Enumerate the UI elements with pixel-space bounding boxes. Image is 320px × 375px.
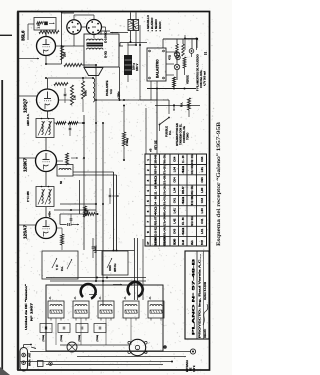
svg-text:OSC: OSC — [108, 265, 112, 271]
svg-text:·C·: ·C· — [125, 296, 127, 299]
svg-text:● NEGRO: ● NEGRO — [154, 19, 158, 31]
svg-text:C41: C41 — [200, 218, 204, 223]
svg-text:LLEMA: LLEMA — [154, 237, 158, 245]
svg-text:L91: L91 — [200, 167, 204, 172]
svg-text:CONTROL DE: CONTROL DE — [182, 126, 186, 143]
svg-text:L42: L42 — [173, 218, 177, 223]
svg-text:7: 7 — [146, 221, 150, 223]
svg-text:·C·: ·C· — [150, 296, 152, 299]
svg-text:47Ω: 47Ω — [168, 55, 172, 60]
svg-text:12SQ7: 12SQ7 — [23, 98, 28, 113]
svg-text:12SA7: 12SA7 — [23, 225, 28, 239]
svg-text:(TRIM): (TRIM) — [43, 335, 45, 342]
svg-text:R-M: R-M — [181, 240, 185, 245]
svg-text:·C·: ·C· — [100, 296, 102, 299]
svg-text:ANT: ANT — [29, 352, 32, 357]
svg-text:MΩ: MΩ — [154, 175, 158, 185]
svg-text:FRECUENCIA: FRECUENCIA — [163, 236, 167, 245]
svg-text:180-546: 180-546 — [154, 155, 158, 164]
svg-text:Unidad de RF “Galeno”: Unidad de RF “Galeno” — [24, 283, 28, 330]
svg-text:50 Kc = 33 Kc: 50 Kc = 33 Kc — [163, 196, 167, 205]
svg-text:10 KΩ = 33KΩ: 10 KΩ = 33KΩ — [190, 165, 194, 174]
svg-text:C43: C43 — [173, 229, 177, 234]
svg-text:● ROJO: ● ROJO — [158, 22, 162, 32]
svg-text:+B: +B — [149, 148, 153, 152]
svg-text:PLANO Nº 57-48-B: PLANO Nº 57-48-B — [192, 257, 196, 335]
svg-text:455 Kc: 455 Kc — [113, 263, 117, 272]
svg-text:INTERRUPTOR EN: INTERRUPTOR EN — [175, 123, 179, 146]
svg-text:35L6: 35L6 — [21, 30, 26, 41]
svg-text:4: 4 — [146, 190, 150, 192]
svg-text:65 Kc = 1940c: 65 Kc = 1940c — [163, 227, 167, 236]
svg-text:15 Kc = 1190c: 15 Kc = 1190c — [163, 186, 167, 195]
svg-text:1 M: 1 M — [73, 95, 77, 100]
svg-text:FECHA: 5-4-1949: FECHA: 5-4-1949 — [204, 281, 207, 300]
svg-text:TANDEM CON EL: TANDEM CON EL — [179, 123, 183, 145]
svg-text:Esquema del receptor “Galeno”: Esquema del receptor “Galeno” 1957-95B — [215, 122, 222, 246]
svg-text:DIBUJÓ:: DIBUJÓ: — [204, 329, 207, 338]
svg-text:● AMARILLO: ● AMARILLO — [146, 15, 150, 31]
svg-text:BOB: BOB — [173, 240, 177, 245]
svg-text:R51-57: R51-57 — [154, 217, 158, 226]
svg-text:PROYECTO: Ing. Raul Varela A.: PROYECTO: Ing. Raul Varela A.C.... — [199, 253, 202, 338]
svg-text:11 - 26: 11 - 26 — [181, 155, 185, 163]
svg-text:P.A.: P.A. — [168, 130, 172, 135]
svg-text:7400 Kc = 270Kc: 7400 Kc = 270Kc — [163, 155, 167, 164]
svg-text:2 Meg: 2 Meg — [125, 138, 129, 146]
svg-text:T. FI: T. FI — [55, 265, 59, 270]
svg-text:L04: L04 — [173, 167, 177, 172]
svg-text:BALASTRO: BALASTRO — [156, 59, 160, 78]
svg-text:50: 50 — [59, 181, 63, 184]
svg-text:P.A.: P.A. — [60, 266, 64, 271]
svg-text:3: 3 — [146, 179, 150, 181]
svg-text:C04: C04 — [173, 156, 177, 161]
svg-text:(TRIM): (TRIM) — [61, 335, 63, 342]
svg-text:L04: L04 — [173, 187, 177, 192]
svg-text:L41: L41 — [200, 229, 204, 234]
svg-text:4Ω: 4Ω — [181, 196, 185, 204]
svg-text:8: 8 — [146, 231, 150, 233]
svg-text:21-26 KΩ: 21-26 KΩ — [154, 227, 158, 236]
svg-text:R51-57: R51-57 — [181, 186, 185, 194]
svg-text:·C·: ·C· — [50, 296, 52, 299]
svg-text:FUSIBLE: FUSIBLE — [165, 126, 169, 137]
svg-text:VERDE: VERDE — [186, 75, 190, 84]
svg-text:200: 200 — [63, 52, 67, 57]
svg-text:34 - 56: 34 - 56 — [154, 196, 158, 205]
svg-text:253 Kc = 1340c: 253 Kc = 1340c — [163, 175, 167, 184]
svg-text:+80v: +80v — [48, 211, 52, 217]
svg-text:CON DEL DIAL: CON DEL DIAL — [199, 69, 203, 88]
svg-text:110 V.: 110 V. — [193, 365, 196, 372]
svg-text:Nº: Nº — [146, 242, 150, 245]
svg-text:AMP. K.A.: AMP. K.A. — [26, 113, 30, 126]
svg-text:C93: C93 — [200, 177, 204, 182]
svg-text:68 KΩ = 41KΩ: 68 KΩ = 41KΩ — [190, 154, 194, 163]
svg-text:·C·: ·C· — [75, 296, 77, 299]
svg-text:P.A.: P.A. — [180, 102, 184, 107]
svg-text:C94: C94 — [200, 156, 204, 161]
svg-text:4Ω: 4Ω — [181, 165, 185, 173]
svg-text:C04: C04 — [173, 177, 177, 182]
svg-text:6Ω KΩ = 41KΩ: 6Ω KΩ = 41KΩ — [190, 216, 194, 225]
svg-text:577 Kc = 320 Kc: 577 Kc = 320 Kc — [163, 165, 167, 174]
svg-text:12SK7: 12SK7 — [23, 158, 28, 172]
svg-text:460Kc = 15Kc: 460Kc = 15Kc — [163, 206, 167, 215]
svg-text:517 KΩ = 50%Ω: 517 KΩ = 50%Ω — [190, 196, 194, 205]
svg-text:5: 5 — [146, 200, 150, 202]
svg-text:517 Kc = 50%: 517 Kc = 50% — [163, 216, 167, 225]
svg-text:150 V: 150 V — [135, 64, 139, 71]
svg-text:BOB: BOB — [200, 240, 204, 245]
svg-text:(TRIM): (TRIM) — [79, 335, 81, 342]
svg-text:6: 6 — [146, 210, 150, 212]
svg-text:L41: L41 — [173, 208, 177, 213]
svg-text:C41: C41 — [173, 198, 177, 203]
svg-text:4 Ω: 4 Ω — [109, 89, 113, 94]
svg-text:2: 2 — [146, 169, 150, 171]
svg-text:480KΩ = 15KΩ: 480KΩ = 15KΩ — [190, 185, 194, 194]
svg-text:R5?-57: R5?-57 — [154, 165, 158, 174]
svg-text:+180v: +180v — [117, 91, 121, 99]
svg-text:C43: C43 — [200, 198, 204, 203]
svg-text:4Ω: 4Ω — [181, 227, 185, 235]
svg-text:(TRIM): (TRIM) — [97, 335, 99, 342]
svg-text:D-3Ω: D-3Ω — [104, 50, 108, 58]
svg-text:MASA: MASA — [29, 359, 32, 366]
svg-text:34 - 56: 34 - 56 — [181, 217, 185, 225]
svg-text:E-1000Ω: E-1000Ω — [104, 31, 108, 43]
svg-text:1: 1 — [146, 159, 150, 161]
svg-text:● BLANCO: ● BLANCO — [150, 18, 154, 32]
svg-text:Nº 1957: Nº 1957 — [30, 302, 34, 321]
svg-text:40Ω: 40Ω — [154, 206, 158, 216]
svg-text:TONO: TONO — [186, 133, 190, 140]
svg-text:F FILAMENTOS DE ACUERDO: F FILAMENTOS DE ACUERDO — [196, 54, 200, 91]
svg-text:0.0001: 0.0001 — [95, 245, 98, 253]
svg-text:L40: L40 — [200, 208, 204, 213]
svg-text:MED.: MED. — [190, 240, 194, 245]
svg-text:1ª FI 455: 1ª FI 455 — [26, 191, 30, 202]
svg-text:500K: 500K — [85, 90, 88, 96]
svg-text:21 - 26: 21 - 26 — [154, 186, 158, 195]
svg-text:L90: L90 — [200, 187, 204, 192]
svg-text:4,7V 300 mA: 4,7V 300 mA — [203, 71, 207, 86]
